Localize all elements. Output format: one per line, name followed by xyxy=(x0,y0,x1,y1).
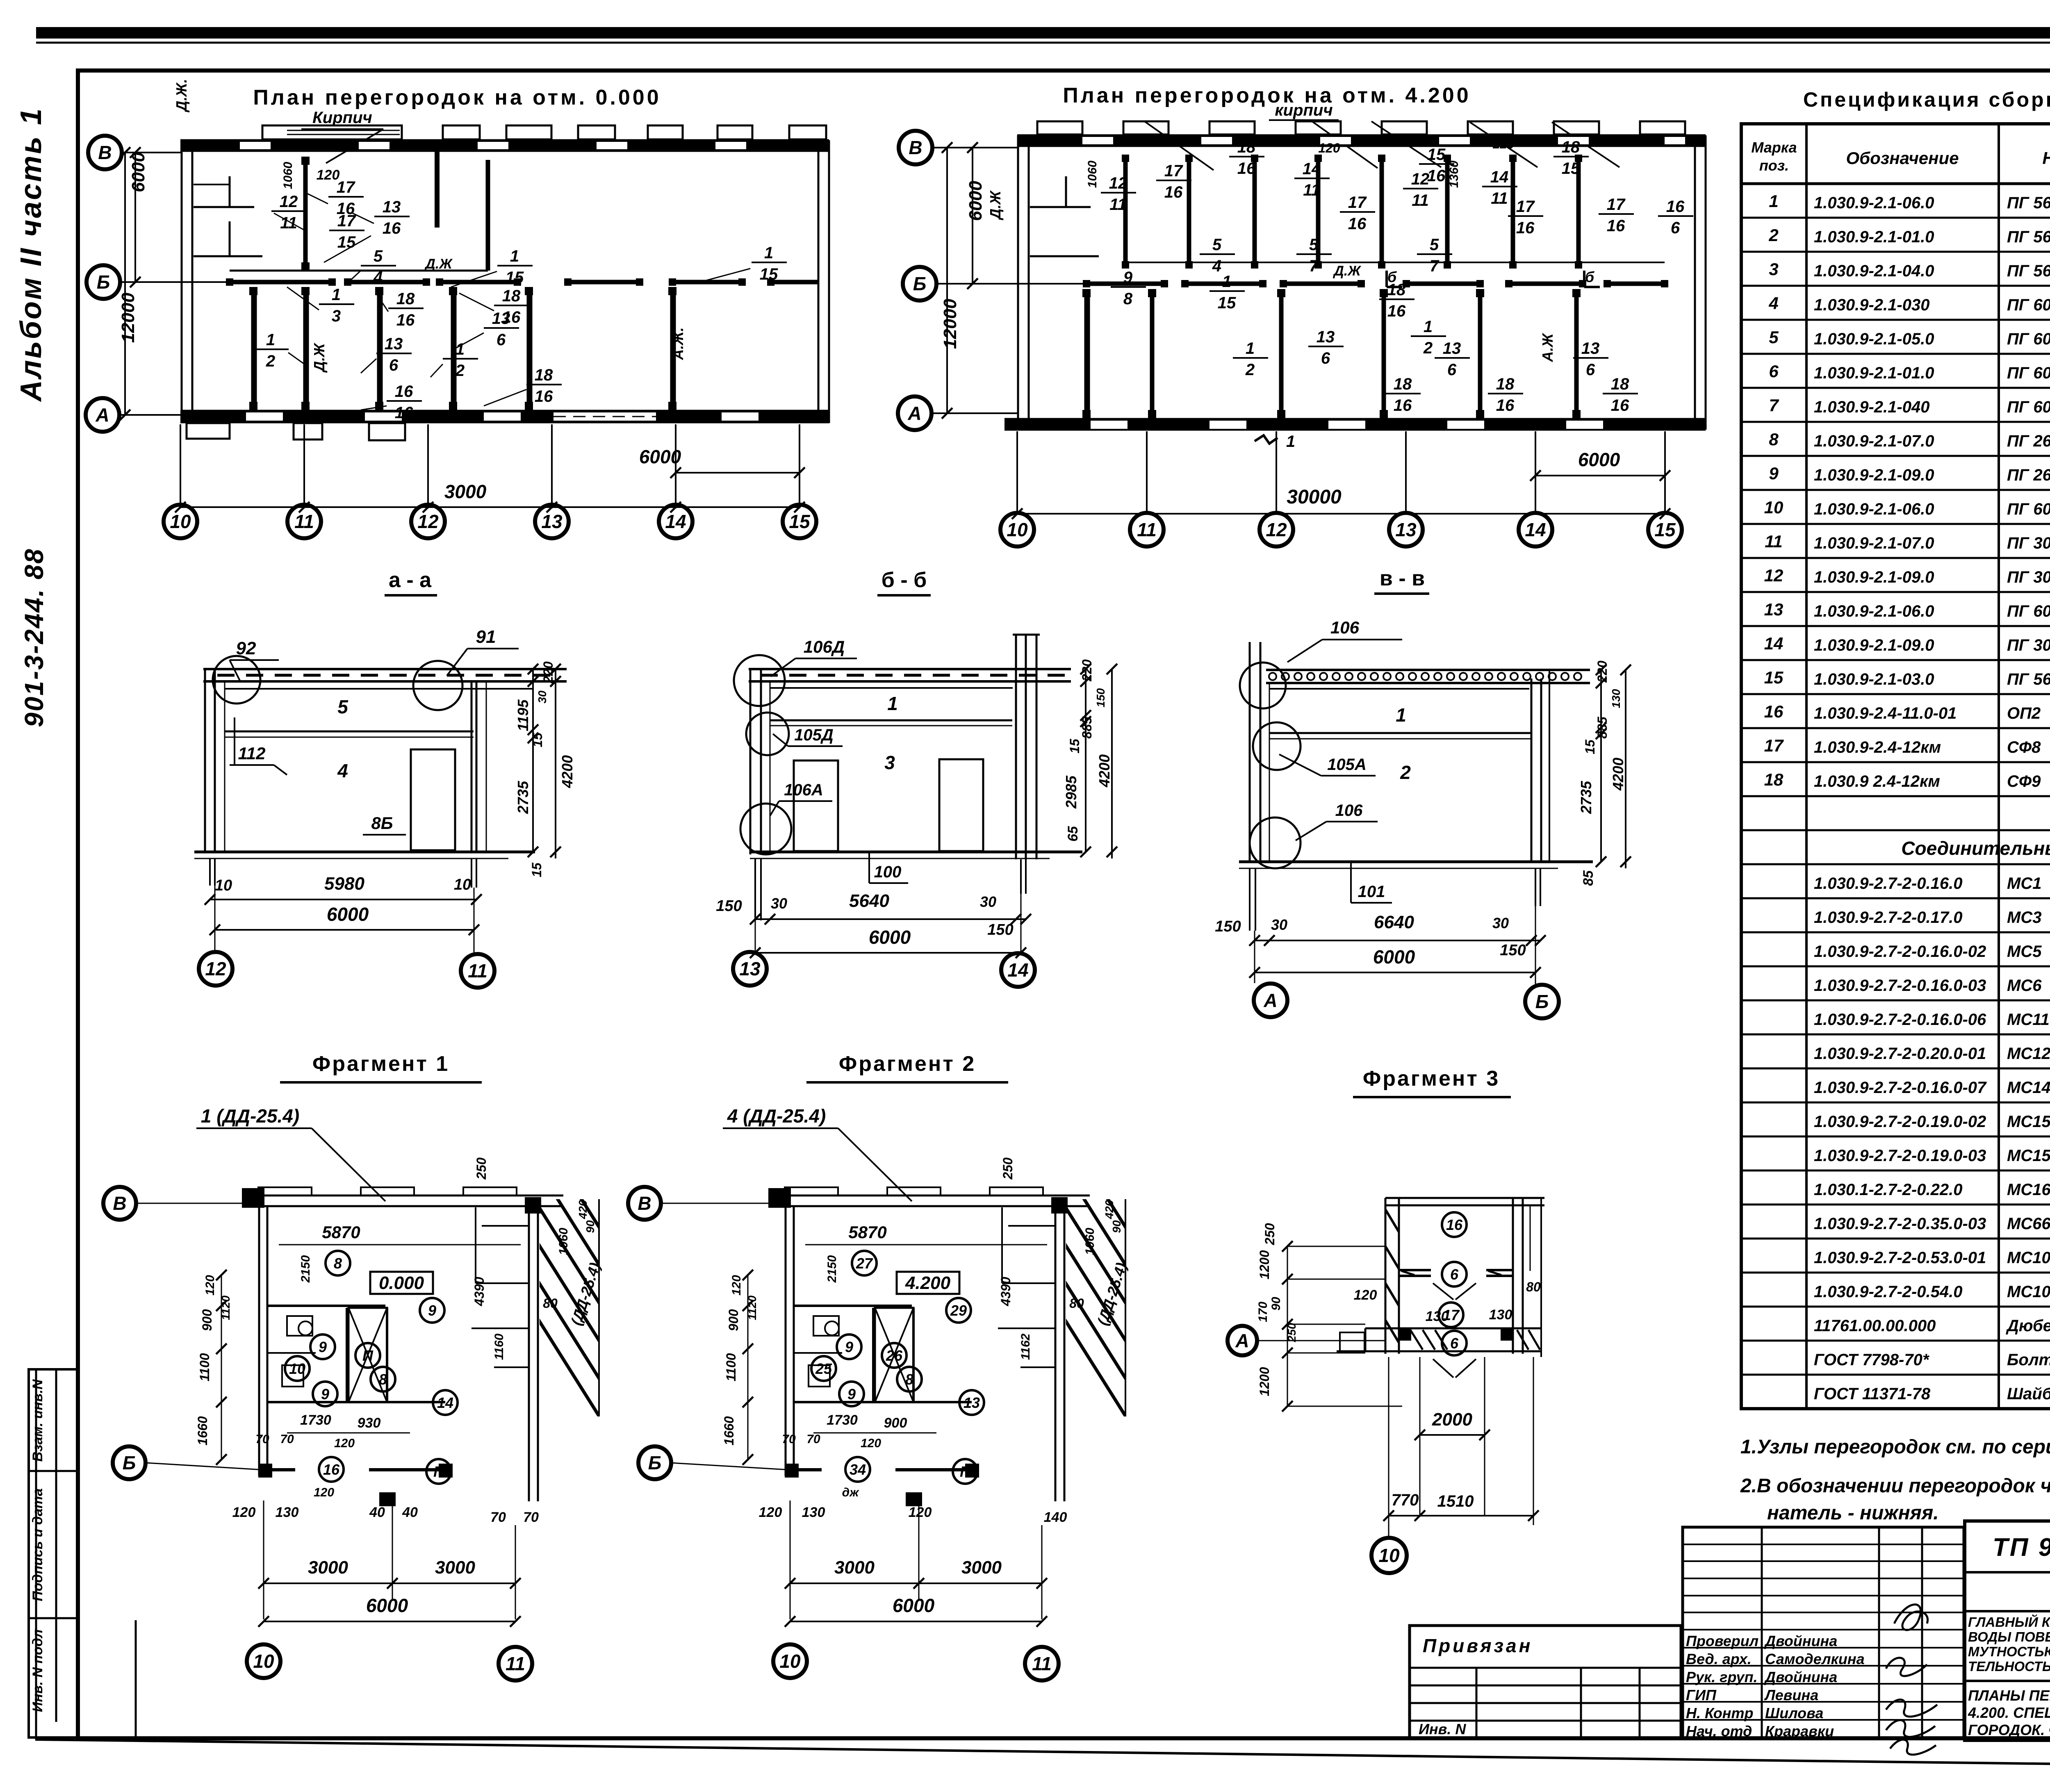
svg-text:12: 12 xyxy=(1109,174,1127,192)
fragment 1 row circle B xyxy=(113,1446,146,1479)
svg-text:17: 17 xyxy=(1607,196,1626,214)
svg-text:885: 885 xyxy=(1080,716,1094,739)
svg-text:770: 770 xyxy=(1392,1491,1419,1509)
svg-text:Наименование: Наименование xyxy=(2042,148,2050,168)
svg-text:6: 6 xyxy=(389,356,399,374)
svg-text:2: 2 xyxy=(1400,762,1411,783)
svg-text:1.030.9-2.7-2-0.16.0-03: 1.030.9-2.7-2-0.16.0-03 xyxy=(1814,977,1986,995)
plan1 top wall xyxy=(180,140,829,151)
svg-text:900: 900 xyxy=(200,1309,214,1331)
svg-text:16: 16 xyxy=(396,311,415,329)
svg-text:1730: 1730 xyxy=(300,1412,331,1428)
svg-text:120: 120 xyxy=(334,1437,355,1450)
spec table detail row МС15 xyxy=(1741,1110,2050,1136)
svg-text:А: А xyxy=(907,403,921,424)
svg-text:6000: 6000 xyxy=(869,927,911,948)
svg-text:1200: 1200 xyxy=(1257,1250,1272,1279)
svg-text:15: 15 xyxy=(530,732,545,747)
svg-text:70: 70 xyxy=(523,1510,539,1525)
svg-text:15: 15 xyxy=(789,511,811,532)
svg-text:6: 6 xyxy=(1586,361,1595,379)
svg-text:70: 70 xyxy=(490,1510,506,1525)
section b-b below-floor stubs xyxy=(755,858,1026,920)
svg-text:1.030.9-2.7-2-0.16.0-07: 1.030.9-2.7-2-0.16.0-07 xyxy=(1814,1079,1987,1097)
svg-text:70: 70 xyxy=(806,1432,820,1446)
plan1 grid circle 12 xyxy=(411,505,445,538)
spec table row 14 xyxy=(1741,634,2050,660)
svg-text:1510: 1510 xyxy=(1437,1492,1474,1510)
fragment 2 left dimension chain xyxy=(722,1270,758,1465)
svg-text:6640: 6640 xyxy=(1374,912,1414,932)
sheet top edge bar xyxy=(36,27,2050,43)
svg-text:106Д: 106Д xyxy=(804,637,845,656)
plan2 left wall xyxy=(1018,135,1099,430)
plan1 row leaders xyxy=(119,153,230,415)
svg-text:80: 80 xyxy=(1069,1296,1084,1311)
svg-text:4.200: 4.200 xyxy=(905,1273,951,1293)
svg-text:1.030.9-2.1-01.0: 1.030.9-2.1-01.0 xyxy=(1814,364,1934,382)
svg-text:18: 18 xyxy=(1237,138,1256,156)
plan1 grid lines xyxy=(180,424,799,508)
svg-text:Н. Контр: Н. Контр xyxy=(1686,1705,1754,1721)
svg-text:МС1: МС1 xyxy=(2007,874,2041,893)
svg-text:3000: 3000 xyxy=(435,1557,475,1578)
svg-text:14: 14 xyxy=(1525,519,1546,540)
plan2 dimension 6000 xyxy=(1530,449,1670,481)
spec table row 12 xyxy=(1741,566,2050,592)
svg-text:ПГ 56.27-1-Л: ПГ 56.27-1-Л xyxy=(2007,228,2050,246)
section b-b label 106D xyxy=(771,637,857,676)
plan2 grid circle 13 xyxy=(1389,513,1423,546)
svg-text:130: 130 xyxy=(276,1505,299,1520)
svg-text:5870: 5870 xyxy=(322,1223,360,1242)
svg-text:70: 70 xyxy=(280,1432,294,1446)
svg-text:1162: 1162 xyxy=(1019,1333,1032,1360)
svg-text:1060: 1060 xyxy=(557,1227,570,1255)
svg-text:16: 16 xyxy=(1348,215,1367,233)
fragment 3 step detail xyxy=(1337,1328,1365,1351)
svg-text:8Б: 8Б xyxy=(371,813,393,833)
spec table row 4 xyxy=(1741,294,2050,320)
svg-text:150: 150 xyxy=(1094,688,1107,707)
spec table detail row Шайба 10.01 xyxy=(1814,1382,2050,1403)
svg-text:1.030.9 2.4-12км: 1.030.9 2.4-12км xyxy=(1814,772,1940,790)
svg-text:МС11: МС11 xyxy=(2007,1011,2050,1029)
svg-text:11: 11 xyxy=(1491,189,1508,207)
svg-text:1: 1 xyxy=(1424,318,1433,336)
svg-text:1: 1 xyxy=(332,286,341,304)
svg-text:4 (ДД-25.4): 4 (ДД-25.4) xyxy=(727,1105,826,1127)
svg-text:А.Ж: А.Ж xyxy=(1539,333,1556,362)
spec table detail row МС6 xyxy=(1741,974,2050,1000)
svg-text:2: 2 xyxy=(1423,339,1433,357)
svg-text:Дюбель ДРК-М10: Дюбель ДРК-М10 xyxy=(2006,1317,2050,1335)
svg-text:1: 1 xyxy=(1246,339,1255,357)
fragment 1 node mark 1 xyxy=(196,1105,385,1201)
svg-text:120: 120 xyxy=(232,1505,256,1520)
section b-b bottom dimension 5640 xyxy=(716,891,1031,938)
fragment 2 inner dims xyxy=(782,1157,1123,1499)
svg-text:Д.Ж: Д.Ж xyxy=(311,343,328,373)
svg-text:В: В xyxy=(638,1193,651,1214)
svg-text:15: 15 xyxy=(1067,738,1082,754)
svg-text:16: 16 xyxy=(395,404,413,422)
svg-text:3000: 3000 xyxy=(961,1557,1002,1578)
section v-v partition top line xyxy=(1269,733,1531,739)
section v-v right column xyxy=(1531,670,1549,863)
fragment 1 inner dims xyxy=(255,1157,597,1499)
svg-text:1.030.9-2.7-2-0.35.0-03: 1.030.9-2.7-2-0.35.0-03 xyxy=(1814,1215,1986,1233)
svg-text:15: 15 xyxy=(1583,739,1597,754)
section v-v bottom dimension 6000 xyxy=(1249,946,1541,978)
section a-a left wall xyxy=(205,669,225,852)
spec table row 16 xyxy=(1741,702,2050,728)
svg-text:30: 30 xyxy=(536,690,549,704)
svg-text:6000: 6000 xyxy=(893,1595,935,1616)
svg-text:ГОРОДОК. ФРАГМЕНТЫ 1÷3.: ГОРОДОК. ФРАГМЕНТЫ 1÷3. xyxy=(1968,1721,2050,1738)
title block signature row Вед. арх. xyxy=(1686,1651,1865,1667)
svg-text:б - б: б - б xyxy=(881,568,927,592)
svg-text:Б: Б xyxy=(648,1452,662,1473)
fragment 2 hatched exterior panel xyxy=(977,1181,1351,1435)
svg-text:ПГ 56.9-1-Л: ПГ 56.9-1-Л xyxy=(2007,194,2050,212)
section v-v ceiling line xyxy=(1269,688,1529,690)
svg-text:МС12: МС12 xyxy=(2007,1045,2050,1063)
plan2 partitions above row B xyxy=(1122,155,1665,269)
plan1 partitions above row B xyxy=(194,152,488,271)
svg-text:6000: 6000 xyxy=(1578,449,1620,470)
svg-text:1: 1 xyxy=(1222,273,1231,291)
svg-text:МС5: МС5 xyxy=(2007,943,2042,961)
svg-text:12: 12 xyxy=(1266,519,1287,540)
svg-text:1060: 1060 xyxy=(1083,1227,1097,1255)
svg-text:ПГ 56.30-1-Л-Д1: ПГ 56.30-1-Л-Д1 xyxy=(2007,670,2050,688)
title block: signature table xyxy=(1683,1527,1964,1738)
svg-text:101: 101 xyxy=(1358,883,1385,901)
plan2 row leaders xyxy=(932,148,1086,413)
svg-text:9: 9 xyxy=(845,1339,853,1355)
svg-text:65: 65 xyxy=(1065,826,1081,842)
svg-text:16: 16 xyxy=(1446,1216,1463,1233)
svg-text:ТЕЛЬНОСТЬЮ 12.5ТЫС.М3/СУТ.: ТЕЛЬНОСТЬЮ 12.5ТЫС.М3/СУТ. xyxy=(1968,1659,2050,1674)
spec table detail row МС16 xyxy=(1741,1178,2050,1205)
fragment 3 row circle A xyxy=(1228,1326,1257,1355)
svg-text:130: 130 xyxy=(1610,689,1622,708)
fragment 3 row wall xyxy=(1365,1328,1542,1378)
section a-a partition top line xyxy=(225,731,474,737)
svg-text:поз.: поз. xyxy=(1759,157,1789,174)
svg-text:11: 11 xyxy=(468,960,487,981)
svg-text:130: 130 xyxy=(1489,1307,1512,1323)
fragment 2 row circle B xyxy=(638,1446,671,1479)
svg-text:6000: 6000 xyxy=(1373,946,1415,968)
section a-a label 91 xyxy=(447,627,519,676)
section a-a below-floor stubs xyxy=(210,858,476,888)
plan2 grid circle 11 xyxy=(1130,513,1164,546)
svg-text:13: 13 xyxy=(1581,339,1600,357)
section b-b grid circle 13 xyxy=(733,952,767,986)
spec table detail row Болт М10х30х58 xyxy=(1741,1348,2050,1375)
svg-text:б: б xyxy=(1585,269,1595,285)
fragment 1 top wall xyxy=(242,1187,563,1208)
section a-a bottom dimension 5980 xyxy=(205,874,482,905)
plan1 left dimension 6000 xyxy=(128,147,148,287)
plan1 rotated room labels xyxy=(173,79,686,373)
svg-text:2: 2 xyxy=(1768,225,1778,245)
svg-text:12000: 12000 xyxy=(118,292,138,343)
section v-v grid leaders xyxy=(1255,906,1535,984)
svg-text:1: 1 xyxy=(1286,433,1295,451)
title block: project name xyxy=(1968,1614,2050,1674)
plan1 grid circle 10 xyxy=(164,505,197,538)
svg-text:120: 120 xyxy=(1318,141,1340,155)
title block: sheet name xyxy=(1968,1687,2050,1738)
svg-text:1.030.9-2.7-2-0.19.0-02: 1.030.9-2.7-2-0.19.0-02 xyxy=(1814,1113,1986,1131)
svg-text:15: 15 xyxy=(760,265,778,283)
svg-text:8: 8 xyxy=(334,1255,342,1272)
plan1 grid circle 14 xyxy=(659,505,692,538)
svg-text:10: 10 xyxy=(1378,1545,1400,1566)
section b-b grid leaders xyxy=(755,894,1021,953)
svg-text:1.030.9-2.7-2-0.54.0: 1.030.9-2.7-2-0.54.0 xyxy=(1814,1283,1962,1301)
section b-b bottom dimension 6000 xyxy=(750,927,1026,958)
plan2 annotation fractions xyxy=(1101,138,1693,414)
fragment 2 row leader lines xyxy=(661,1203,789,1470)
section a-a door xyxy=(411,749,455,850)
svg-text:Подпись и дата: Подпись и дата xyxy=(30,1488,46,1601)
svg-text:1: 1 xyxy=(764,244,773,262)
svg-text:Д.Ж: Д.Ж xyxy=(987,190,1004,221)
svg-text:30: 30 xyxy=(1492,915,1509,931)
spec table row 17 xyxy=(1741,736,2050,762)
svg-text:13: 13 xyxy=(739,958,761,979)
svg-text:250: 250 xyxy=(474,1157,489,1180)
svg-text:б: б xyxy=(1387,269,1397,285)
svg-text:29: 29 xyxy=(950,1302,967,1319)
svg-text:В: В xyxy=(113,1193,126,1214)
svg-text:16: 16 xyxy=(395,383,413,401)
svg-text:220: 220 xyxy=(541,661,556,684)
svg-text:6000: 6000 xyxy=(327,904,369,925)
svg-text:1.030.9-2.1-06.0: 1.030.9-2.1-06.0 xyxy=(1814,500,1934,518)
plan2 kirpich leader lines xyxy=(1144,121,1619,170)
margin stamp column xyxy=(29,1369,136,1738)
svg-text:Взам. инв.N: Взам. инв.N xyxy=(30,1379,46,1462)
plan2 section cut mark 1 xyxy=(1255,433,1295,451)
svg-text:11: 11 xyxy=(1303,181,1320,199)
svg-text:ВОДЫ ПОВЕРХНОСТНЫХ ИСТОЧНИКОВ: ВОДЫ ПОВЕРХНОСТНЫХ ИСТОЧНИКОВ xyxy=(1968,1629,2050,1644)
svg-text:15: 15 xyxy=(1654,519,1676,540)
svg-text:Нач. отд: Нач. отд xyxy=(1686,1723,1752,1740)
svg-text:30: 30 xyxy=(771,895,787,912)
section b-b floor line xyxy=(750,852,1082,858)
spec table detail row МС107 xyxy=(1741,1280,2050,1307)
svg-text:14: 14 xyxy=(1303,160,1321,178)
plan2 window lintels xyxy=(1037,121,1685,134)
svg-text:18: 18 xyxy=(396,290,415,308)
svg-text:1.030.9-2.7-2-0.16.0: 1.030.9-2.7-2-0.16.0 xyxy=(1814,874,1962,893)
section a-a label 112 xyxy=(230,717,287,775)
spec table detail row МС11 xyxy=(1741,1008,2050,1034)
svg-text:Болт М10х30х58: Болт М10х30х58 xyxy=(2007,1351,2050,1369)
spec table row 10 xyxy=(1741,498,2050,524)
svg-text:220: 220 xyxy=(1595,660,1610,683)
svg-text:11761.00.00.000: 11761.00.00.000 xyxy=(1814,1317,1936,1335)
svg-text:105А: 105А xyxy=(1327,756,1367,774)
svg-text:1.030.9-2.1-040: 1.030.9-2.1-040 xyxy=(1814,398,1929,416)
svg-text:250: 250 xyxy=(1285,1323,1298,1342)
title block signature row Нач. отд xyxy=(1686,1723,1834,1740)
svg-text:11: 11 xyxy=(1412,191,1429,209)
fragment 2 right room lines xyxy=(998,1207,1055,1367)
fragment 1 title xyxy=(280,1052,482,1082)
svg-text:1: 1 xyxy=(266,331,275,349)
svg-text:13: 13 xyxy=(383,198,401,216)
section b-b detail circles xyxy=(734,655,791,854)
fragment 1 circled room numbers xyxy=(285,1251,458,1484)
svg-text:9: 9 xyxy=(847,1386,856,1403)
plan2 row B partition wall xyxy=(1083,280,1668,287)
svg-text:18: 18 xyxy=(1496,375,1515,393)
svg-text:МС3: МС3 xyxy=(2007,909,2041,927)
svg-text:1360: 1360 xyxy=(1447,160,1461,188)
svg-text:16: 16 xyxy=(1607,217,1625,235)
plan1 bottom dimension 3000 xyxy=(175,481,805,512)
svg-text:40: 40 xyxy=(369,1505,385,1520)
svg-text:МС15: МС15 xyxy=(2007,1113,2050,1131)
svg-text:Обозначение: Обозначение xyxy=(1846,148,1959,168)
svg-text:ПГ 30.6-2-Л: ПГ 30.6-2-Л xyxy=(2007,568,2050,586)
svg-text:Б: Б xyxy=(1535,991,1549,1012)
svg-text:7: 7 xyxy=(1430,257,1440,275)
svg-text:6: 6 xyxy=(1450,1335,1459,1352)
svg-text:1.030.9-2.1-09.0: 1.030.9-2.1-09.0 xyxy=(1814,466,1934,484)
fragment 2 dim 3000+3000 xyxy=(785,1525,1047,1619)
svg-text:11: 11 xyxy=(1137,519,1157,540)
svg-text:900: 900 xyxy=(884,1415,907,1431)
svg-text:6000: 6000 xyxy=(639,446,681,467)
svg-text:12: 12 xyxy=(280,193,298,211)
svg-text:ПГ 60.12-1-Л-В1: ПГ 60.12-1-Л-В1 xyxy=(2007,330,2050,348)
section v-v bottom dimension 6640 xyxy=(1215,912,1546,959)
plan2 row circle A xyxy=(898,396,932,430)
section a-a floor line xyxy=(194,852,535,858)
svg-text:3: 3 xyxy=(332,307,341,325)
plan 4.200 kirpich label xyxy=(1269,101,1339,120)
spec table detail row МС14 xyxy=(1741,1076,2050,1102)
plan 0.000 kirpich label xyxy=(301,109,383,163)
svg-text:Фрагмент 1: Фрагмент 1 xyxy=(312,1052,449,1076)
fragment 2 row circle V xyxy=(628,1187,661,1220)
svg-text:Б: Б xyxy=(97,271,110,293)
svg-text:12: 12 xyxy=(1411,170,1430,188)
svg-text:15: 15 xyxy=(529,862,544,877)
section v-v title xyxy=(1374,567,1429,594)
svg-text:ПГ 60.9-1-Л-В1: ПГ 60.9-1-Л-В1 xyxy=(2007,500,2050,518)
svg-text:6: 6 xyxy=(1450,1266,1459,1283)
svg-text:15: 15 xyxy=(506,269,524,287)
fragment 1 dim 3000+3000 xyxy=(258,1525,521,1619)
plan1 leader lines xyxy=(274,193,750,410)
svg-text:5: 5 xyxy=(374,247,383,265)
section v-v label 101 xyxy=(1351,863,1392,903)
svg-text:6: 6 xyxy=(1671,219,1680,237)
svg-text:Инв. N подл: Инв. N подл xyxy=(30,1629,46,1712)
svg-text:1.030.9-2.1-07.0: 1.030.9-2.1-07.0 xyxy=(1814,432,1934,450)
plan2 top wall xyxy=(1017,135,1706,146)
svg-text:МС16: МС16 xyxy=(2007,1181,2050,1199)
svg-text:15: 15 xyxy=(1764,668,1783,687)
svg-text:Вед. арх.: Вед. арх. xyxy=(1686,1651,1752,1667)
svg-text:27: 27 xyxy=(856,1255,873,1272)
plan2 grid lines xyxy=(1017,431,1665,515)
svg-text:15: 15 xyxy=(1218,294,1236,312)
svg-text:16: 16 xyxy=(1496,396,1515,414)
plan2 right wall xyxy=(1695,135,1706,430)
fragment 2 grid circle 11 xyxy=(1025,1647,1059,1680)
section a-a right dimension chain xyxy=(515,661,576,877)
svg-text:Б: Б xyxy=(913,273,927,294)
svg-text:3: 3 xyxy=(1769,260,1778,279)
svg-text:70: 70 xyxy=(255,1432,269,1446)
svg-text:17: 17 xyxy=(337,212,356,230)
plan2 bottom dimension 30000 xyxy=(1012,486,1670,519)
svg-text:1195: 1195 xyxy=(515,699,531,731)
svg-text:11: 11 xyxy=(1032,1653,1052,1674)
fragment 1 elevation box xyxy=(370,1272,433,1294)
fragment 2 row B wall xyxy=(785,1464,979,1506)
svg-text:1: 1 xyxy=(456,340,465,358)
svg-text:10: 10 xyxy=(1764,498,1783,517)
svg-text:А: А xyxy=(1263,990,1277,1011)
svg-text:420: 420 xyxy=(1103,1200,1116,1219)
svg-text:Левина: Левина xyxy=(1764,1687,1818,1703)
svg-text:17: 17 xyxy=(1348,194,1367,212)
section v-v grid circle A xyxy=(1254,984,1287,1017)
svg-text:1.030.9-2.1-09.0: 1.030.9-2.1-09.0 xyxy=(1814,568,1934,586)
svg-text:1200: 1200 xyxy=(1257,1367,1272,1396)
svg-text:1.030.9-2.4-11.0-01: 1.030.9-2.4-11.0-01 xyxy=(1814,704,1957,722)
svg-text:Двойнина: Двойнина xyxy=(1764,1669,1837,1685)
section a-a detail circle 92 xyxy=(213,656,260,704)
svg-text:1.030.9-2.1-04.0: 1.030.9-2.1-04.0 xyxy=(1814,262,1934,280)
svg-text:4200: 4200 xyxy=(1096,754,1113,788)
svg-text:18: 18 xyxy=(1394,375,1412,393)
plan2 partitions below row B xyxy=(1082,289,1581,418)
spec table row 18 xyxy=(1741,770,2050,796)
svg-text:18: 18 xyxy=(1764,770,1783,789)
svg-text:1160: 1160 xyxy=(492,1333,506,1360)
svg-text:120: 120 xyxy=(861,1437,881,1450)
fragment 2 node mark 4 xyxy=(723,1105,912,1201)
svg-text:420: 420 xyxy=(576,1200,589,1219)
spec table detail row МС66 xyxy=(1741,1212,2050,1239)
fragment 3 row leader xyxy=(1257,1340,1386,1341)
svg-text:ОП2: ОП2 xyxy=(2007,704,2041,722)
svg-text:1060: 1060 xyxy=(281,162,295,189)
svg-text:120: 120 xyxy=(909,1505,932,1520)
svg-text:1660: 1660 xyxy=(195,1416,210,1445)
svg-text:0.000: 0.000 xyxy=(379,1273,424,1293)
svg-text:Инв. N: Инв. N xyxy=(1419,1721,1466,1737)
svg-text:18: 18 xyxy=(502,287,521,305)
svg-text:в - в: в - в xyxy=(1380,567,1425,590)
svg-text:18: 18 xyxy=(1611,375,1629,393)
svg-text:16: 16 xyxy=(1387,302,1406,320)
section b-b doors xyxy=(794,759,983,851)
section a-a roof slab xyxy=(203,669,567,681)
svg-text:16: 16 xyxy=(1164,183,1183,201)
